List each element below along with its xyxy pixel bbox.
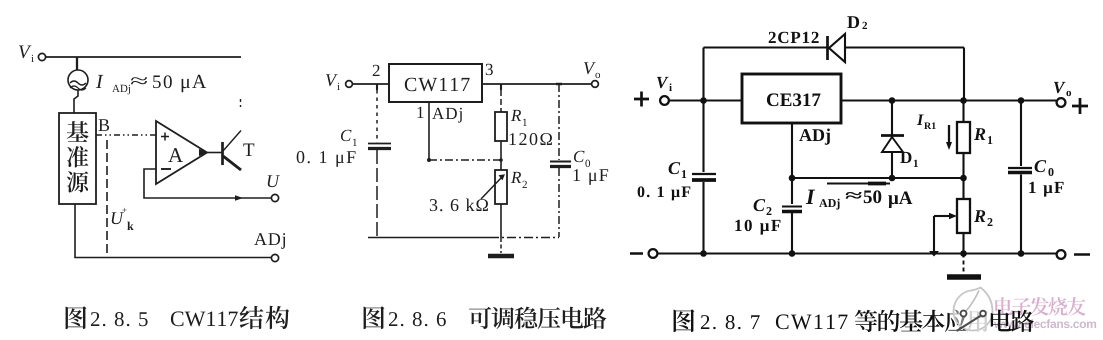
label 1 uF bbox=[574, 169, 609, 185]
wire bypass left rail up bbox=[702, 48, 704, 101]
pin 3 label bbox=[486, 64, 493, 75]
label 3.6 kohm bbox=[430, 199, 488, 212]
label 2CP12 bbox=[769, 32, 819, 43]
wire output bbox=[482, 83, 591, 85]
wire top bypass rail bbox=[704, 48, 965, 101]
capacitor C0 output bbox=[1008, 101, 1032, 254]
label A bbox=[168, 148, 183, 162]
label ADj pin bbox=[799, 129, 830, 145]
label plus output bbox=[1072, 98, 1088, 114]
junction R1 top bbox=[960, 97, 967, 104]
caption char dian lu after watermark bbox=[991, 310, 1034, 332]
label CW117 bbox=[405, 78, 470, 92]
label IR1 with arrow bbox=[917, 115, 952, 150]
watermark text elecfans url bbox=[994, 319, 1096, 328]
node Vo label bbox=[584, 62, 600, 78]
junction bottom C2 bbox=[789, 250, 796, 257]
label R1 bbox=[511, 110, 527, 126]
label C1 bbox=[669, 162, 687, 178]
junction R1 bottom bbox=[960, 175, 967, 182]
node Vi label bbox=[19, 46, 34, 62]
terminal Vo bbox=[1057, 98, 1066, 107]
wire R2 down bbox=[500, 204, 502, 238]
label plus input bbox=[634, 92, 649, 107]
junction tick C1 branch bbox=[376, 84, 378, 90]
diode D2 bbox=[828, 34, 846, 62]
wire pin1 to divider (dashed) bbox=[429, 158, 503, 162]
wire input bbox=[669, 99, 742, 101]
resistor R2 (adjustable) bbox=[481, 170, 507, 204]
wire bottom rail diagram2 bbox=[368, 237, 559, 239]
label T bbox=[243, 144, 254, 156]
label CE317 bbox=[767, 93, 821, 106]
regulator CE317 box bbox=[742, 74, 841, 123]
terminal Vo bbox=[592, 81, 599, 88]
wire B to op-amp input (dashed) bbox=[96, 134, 156, 136]
label 0.1 uF bbox=[638, 186, 691, 200]
capacitor C2 bbox=[782, 207, 802, 212]
wire input bbox=[353, 83, 389, 85]
transistor T bbox=[223, 99, 242, 170]
terminal Vi bbox=[38, 53, 45, 60]
label ADj pin bbox=[432, 108, 462, 123]
junction D1 top bbox=[889, 97, 896, 104]
caption figure 2.8.7 bbox=[674, 309, 968, 332]
wire op-amp output with arrow bbox=[199, 149, 222, 156]
ground diagram2 bbox=[488, 238, 514, 256]
wire bottom rail bbox=[658, 252, 1056, 254]
wire R1 branch top bbox=[500, 84, 502, 112]
pin 2 label bbox=[373, 65, 380, 76]
wire current source to box bbox=[74, 90, 78, 113]
diode D1 (zener) bbox=[881, 101, 904, 179]
terminal Vi bbox=[660, 96, 669, 105]
wire ADj to divider bbox=[792, 177, 964, 179]
terminal U bbox=[271, 194, 278, 201]
terminal ADj bbox=[271, 254, 278, 261]
label C0 bbox=[574, 151, 590, 167]
label C2 bbox=[754, 199, 772, 215]
op-amp A bbox=[156, 121, 207, 184]
node Vi label bbox=[657, 77, 672, 91]
label IADJ approx 50 uA bbox=[96, 75, 206, 95]
caption figure 2.8.6 bbox=[364, 306, 607, 329]
node B label bbox=[99, 119, 110, 131]
label D2 bbox=[847, 16, 867, 29]
capacitor C0 bbox=[550, 84, 571, 237]
junction ADj bbox=[789, 175, 796, 182]
node Vi label bbox=[326, 74, 340, 90]
label R1 bbox=[974, 128, 992, 144]
label D1 bbox=[900, 152, 918, 167]
caption figure 2.8.5 bbox=[66, 306, 290, 329]
junction D1 bottom bbox=[889, 175, 896, 182]
junction bottom C1 bbox=[700, 250, 707, 257]
junction input/bypass bbox=[700, 97, 707, 104]
watermark logo plug bbox=[957, 311, 986, 332]
label IADJ approx 50uA bbox=[806, 190, 913, 210]
ground diagram3 bbox=[947, 254, 981, 278]
terminal bottom left bbox=[649, 249, 658, 258]
label 1 uF output bbox=[1029, 182, 1063, 197]
node Vo label bbox=[1054, 82, 1071, 96]
label minus right bbox=[1074, 253, 1090, 256]
label ADj bbox=[254, 233, 285, 249]
label C0 bbox=[1035, 160, 1054, 176]
wire pin1 down bbox=[428, 102, 430, 160]
wire top rail bbox=[46, 56, 241, 58]
watermark text elecfans cn bbox=[995, 297, 1085, 316]
wire Uk vertical (dashed) bbox=[106, 140, 108, 256]
label U bbox=[268, 175, 280, 187]
watermark ghost char yong bbox=[967, 310, 988, 332]
resistor R1 bbox=[495, 112, 507, 141]
wire stub to current source bbox=[76, 57, 78, 70]
wire feedback to output U bbox=[144, 169, 271, 201]
junction wiper bottom bbox=[929, 251, 939, 257]
label 10 uF bbox=[735, 220, 780, 235]
label Uk bbox=[112, 208, 134, 230]
regulator CW117 box bbox=[389, 64, 482, 102]
wire ADj down bbox=[791, 123, 793, 254]
wire R1 to R2 bbox=[500, 141, 502, 170]
wire box to ADj rail bbox=[75, 204, 271, 258]
pin 1 label bbox=[417, 107, 423, 118]
junction pin1 bbox=[427, 158, 431, 162]
terminal bottom right bbox=[1057, 250, 1066, 259]
label R2 bbox=[511, 172, 527, 188]
junction C0 top bbox=[1018, 97, 1025, 104]
capacitor C1 bbox=[368, 90, 391, 237]
label minus left bbox=[630, 252, 643, 255]
terminal Vi bbox=[346, 81, 353, 88]
label jizhunyuan (reference source) bbox=[67, 121, 89, 192]
label 0.1 uF bbox=[297, 151, 356, 167]
resistor R2 (adjustable) bbox=[934, 178, 970, 254]
label R2 bbox=[974, 210, 993, 226]
block reference source box bbox=[59, 113, 96, 204]
current arrow IADJ bbox=[827, 183, 890, 185]
label 120 ohm bbox=[510, 133, 552, 145]
watermark logo drop bbox=[954, 288, 993, 331]
current source IADJ bbox=[68, 70, 88, 90]
capacitor C1 input bbox=[692, 101, 716, 254]
label C1 bbox=[341, 130, 357, 146]
wire output rail bbox=[841, 99, 1056, 101]
junction C0 bottom bbox=[1018, 250, 1025, 257]
junction bottom R2 bbox=[960, 250, 967, 257]
resistor R1 bbox=[957, 101, 970, 179]
